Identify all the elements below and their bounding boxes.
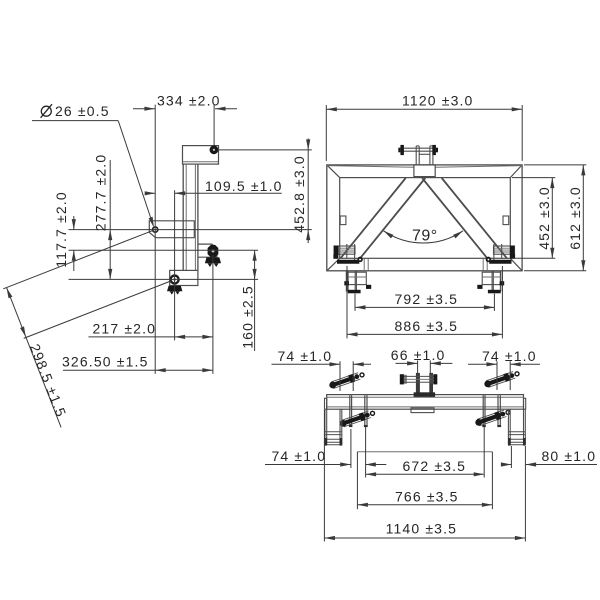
side view: lower pin bracket plate: [198, 244, 217, 257]
dimension 277.7+-2.0 line: [109, 160, 111, 279]
front view: lower pin clip: [488, 290, 501, 294]
svg-text:277.7 ±2.0: 277.7 ±2.0: [93, 154, 109, 232]
svg-text:452 ±3.0: 452 ±3.0: [536, 186, 552, 250]
front view: bushing mount plate lines: [346, 244, 348, 258]
front view: bushing clamp hardware: [333, 254, 338, 259]
front view: corner chamfer bottom-left: [327, 258, 340, 271]
plan view: angled pin outline: [477, 410, 504, 419]
front view: outer frame rectangle: [327, 165, 522, 271]
side view: top pivot bolt: [210, 145, 219, 154]
dimension 298.5+-1.5 oblique line: [7, 288, 62, 428]
front view: mast plate: [414, 165, 435, 177]
svg-text:160 ±2.5: 160 ±2.5: [239, 285, 255, 349]
side view: top mounting plate: [183, 146, 219, 165]
front view: top tube inner edge wedge right: [435, 166, 522, 168]
front view: lower pin washer: [344, 281, 349, 285]
svg-text:74 ±1.0: 74 ±1.0: [278, 348, 333, 364]
svg-text:74 ±1.0: 74 ±1.0: [272, 448, 327, 464]
front view: clevis web line: [419, 153, 430, 155]
extension lines for bottom-left 74 dimension: [350, 429, 352, 468]
svg-text:66 ±1.0: 66 ±1.0: [391, 347, 446, 363]
dimension 452+-3.0 line: [551, 178, 553, 259]
extension lines for 766 dimension: [356, 452, 358, 509]
extension lines for 672 dimension: [365, 427, 367, 478]
dimension 792+-3.5 line: [355, 306, 494, 308]
svg-text:326.50 ±1.5: 326.50 ±1.5: [62, 354, 149, 370]
front view: V-brace left outer line: [341, 178, 406, 258]
dimension 672+-3.5 line: [366, 473, 485, 475]
plan view: angled pin outline: [331, 373, 358, 382]
side view: lower pin 2 linch clip: [167, 286, 182, 291]
side view: mast channel inner edges: [185, 164, 187, 270]
dimension diameter 26 symbol: [41, 106, 51, 116]
extension line x=174.6 (pin2 vertical): [174, 190, 176, 340]
side view: top plate inner edge line: [183, 161, 219, 163]
dimension 109.5+-1.0 line (outside arrows): [146, 192, 156, 194]
dimension 766+-3.5 line: [357, 504, 492, 506]
plan view: top clevis plates: [416, 373, 420, 395]
dimension 74+-1.0 bottom-left line (outside arrows): [265, 464, 351, 466]
plan view: center bottom plate: [411, 408, 434, 413]
svg-text:792 ±3.5: 792 ±3.5: [395, 291, 459, 307]
svg-text:26 ±0.5: 26 ±0.5: [55, 103, 110, 119]
plan view: right bracket plate caps: [482, 425, 486, 427]
side view: middle link plate: [149, 221, 194, 238]
svg-text:79°: 79°: [412, 228, 438, 245]
svg-text:766 ±3.5: 766 ±3.5: [395, 488, 459, 504]
dimension 1140+-3.5 line: [324, 537, 525, 539]
plan view: hidden base line: [357, 451, 492, 453]
front view: lower hitch pin body: [482, 272, 500, 284]
extension line from front top-left corner: [325, 105, 327, 161]
front view: V-brace right outer line: [442, 178, 507, 258]
front view: lower pin bushing: [334, 246, 355, 254]
svg-text:886 ±3.5: 886 ±3.5: [395, 318, 459, 334]
extension line for 80 dimension: [510, 446, 512, 468]
front view: lower pin clip: [348, 290, 361, 294]
dimension 80+-1.0 line (outside arrows): [501, 464, 512, 466]
side view: lower bracket box: [170, 270, 198, 285]
extension line x=212.9 (pin1 vertical): [212, 255, 214, 374]
front view: top tube inner edge wedge left: [327, 166, 414, 168]
extension lines for right 74 top dimension: [496, 361, 498, 390]
plan view: top pin left cap: [400, 374, 404, 384]
front view: clevis posts: [415, 146, 417, 165]
front view: lower pin washer: [500, 281, 505, 285]
front view: bushing clamp hardware: [510, 254, 515, 259]
plan view: right lower hitch pin from above: [507, 409, 509, 445]
plan view: angled pin shaft: [489, 376, 509, 383]
dimension 66+-1.0 line (outside arrows): [396, 362, 418, 364]
plan view: angled pin head: [475, 419, 482, 426]
svg-text:74 ±1.0: 74 ±1.0: [482, 348, 537, 364]
plan view: angled pin shaft: [480, 415, 500, 422]
front view: V-brace right inner line: [422, 178, 487, 258]
plan view: angled pin shaft: [334, 378, 354, 385]
plan view: tube top inner line: [327, 396, 524, 398]
plan view: angled pin outline: [486, 372, 513, 381]
plan view: mast base plate: [414, 392, 436, 397]
plan view: angled pin head: [484, 381, 491, 388]
dimension 74+-1.0 top-left line (outside arrows): [272, 363, 341, 365]
plan view: angled pin shaft: [345, 416, 365, 423]
plan view: top pin right cap: [433, 374, 437, 384]
plan view: tube right end cap: [524, 398, 526, 409]
front view: lower hitch pin plates: [345, 271, 347, 292]
plan view: angled pin outline: [342, 411, 369, 420]
dimension 612+-3.0 line: [582, 165, 584, 271]
extension line x=525.4 right overall: [524, 446, 526, 542]
front view: top link pin: [401, 147, 437, 149]
front view: top pin left retainer: [400, 145, 404, 155]
extension lines for 886 dimension: [346, 266, 348, 338]
svg-text:1140 ±3.5: 1140 ±3.5: [386, 521, 458, 537]
svg-text:612 ±3.0: 612 ±3.0: [567, 186, 583, 250]
svg-text:217 ±2.0: 217 ±2.0: [93, 320, 157, 336]
extension line x=155.2 (pin hole vertical): [154, 105, 156, 374]
plan view: tube left end cap: [325, 398, 327, 409]
front view: lifting eye: [358, 258, 362, 262]
extension line y=250.3 (pin1 horizontal): [69, 249, 259, 251]
oblique extension line from pin hole: [3, 231, 152, 289]
plan view: angled pin nut: [359, 412, 366, 421]
plan view: angled pin head: [340, 420, 347, 427]
svg-text:672 ±3.5: 672 ±3.5: [403, 458, 467, 474]
plan view: top pin washer lines: [404, 375, 406, 384]
plan view: left bracket plate caps: [349, 425, 353, 427]
extension lines for 612 dimension: [524, 164, 586, 166]
dimension 326.50+-1.5 line: [63, 369, 213, 371]
front view: V-brace left inner line: [360, 178, 425, 258]
front view: lower pin bushing: [494, 246, 515, 254]
dimension 886+-3.5 line: [347, 333, 502, 335]
side view: mast channel outer edges: [182, 164, 184, 270]
extension line y=279.4 (pin2 horizontal): [69, 278, 259, 280]
front view: bottom slot lines left: [363, 258, 365, 271]
svg-text:334 ±2.0: 334 ±2.0: [157, 93, 221, 109]
svg-text:117.7 ±2.0: 117.7 ±2.0: [53, 191, 69, 268]
extension lines for 66 dimension: [417, 360, 419, 373]
svg-text:452.8 ±3.0: 452.8 ±3.0: [291, 155, 307, 233]
leader diameter 26 underline: [32, 120, 118, 122]
front view: corner chamfer top-left: [327, 165, 340, 178]
front view: bushing mount plate lines: [501, 244, 503, 258]
extension line y=149.9 from bolt: [219, 149, 312, 151]
front view: corner chamfer top-right: [510, 165, 522, 178]
plan view: left bracket plates: [349, 395, 351, 425]
leader diameter 26 line to pin hole: [118, 121, 153, 226]
front view: lower hitch pin body: [348, 272, 366, 284]
svg-text:80 ±1.0: 80 ±1.0: [542, 448, 597, 464]
plan view: right bracket plates: [482, 395, 484, 425]
extension line x=214 (top bolt vertical): [213, 105, 215, 146]
front view: inner frame rectangle: [340, 178, 511, 259]
plan view: angled pin nut: [494, 411, 501, 420]
front view: right side tab: [503, 216, 509, 225]
svg-text:109.5 ±1.0: 109.5 ±1.0: [205, 178, 283, 194]
dimension 160+-2.5 line: [254, 250, 256, 351]
front view: corner chamfer bottom-right: [510, 258, 522, 271]
extension line y=229.6 (pin hole horizontal): [69, 229, 312, 231]
side view: lower hitch pin 1 head: [208, 245, 219, 257]
side view: link pin hole (diameter 26): [153, 227, 158, 232]
extension lines for 452 dimension: [512, 177, 555, 179]
dimension 74+-1.0 top-right line (outside arrows): [468, 363, 497, 365]
extension lines for left 74 top dimension: [339, 361, 341, 391]
side view: lower hitch pin 2 washer: [171, 276, 179, 284]
front view: bottom slot lines right: [482, 258, 484, 271]
plan view: top link pin from above: [400, 375, 437, 377]
svg-text:1120 ±3.0: 1120 ±3.0: [402, 93, 474, 109]
side view: lower pin 1 linch clip: [205, 257, 221, 263]
plan view: angled pin head: [329, 382, 336, 389]
dimension 217+-2.0 line: [89, 336, 213, 338]
extension line x=324.4 left overall: [323, 410, 325, 542]
plan view: tube bottom inner line: [327, 406, 524, 408]
front view: lower hitch pin plates: [501, 271, 503, 292]
plan view: angled pin nut: [348, 374, 355, 383]
plan view: main cross tube: [327, 395, 524, 410]
front view: left side tab: [340, 216, 346, 225]
front view: top pin right retainer: [432, 145, 436, 155]
plan view: angled pin nut: [503, 373, 510, 382]
front view: 79 degree angle arc: [384, 231, 464, 243]
dimension 117.7+-2.0 line (outside arrows): [73, 216, 75, 230]
plan view: left lower hitch pin from above: [324, 409, 326, 445]
dimension 1120+-3.0 line: [326, 108, 522, 110]
front view: lifting eye: [487, 258, 491, 262]
extension line from front top-right corner: [521, 105, 523, 161]
dimension 334+-2.0 line and outside arrows: [133, 108, 155, 110]
oblique extension line from pin 2: [24, 281, 172, 339]
dimension 452.8+-3.0 line: [307, 139, 309, 244]
extension lines for 792 dimension: [354, 294, 356, 311]
